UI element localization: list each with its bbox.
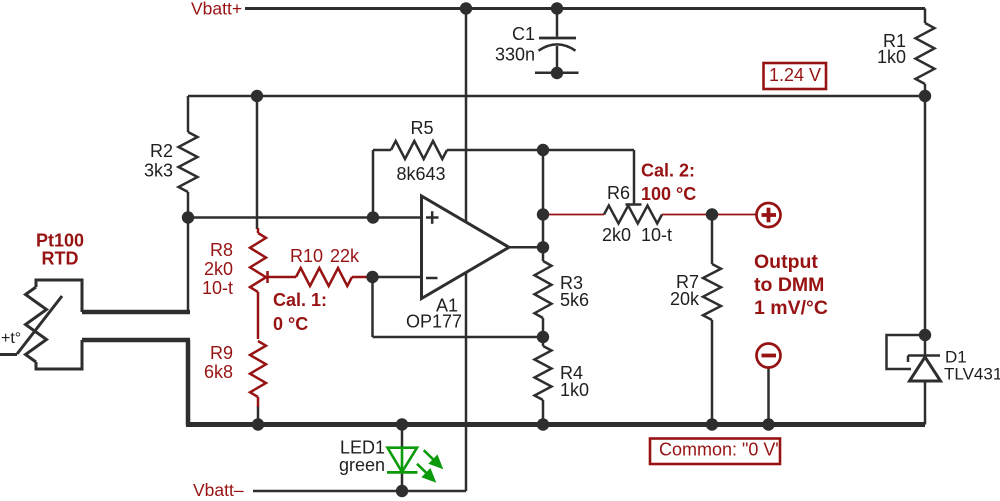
wire Vbatt- rail [253,490,466,493]
svg-text:330n: 330n [495,45,535,65]
svg-text:R8: R8 [210,240,233,260]
svg-text:+t°: +t° [1,330,21,347]
svg-text:6k8: 6k8 [204,362,233,382]
svg-text:R5: R5 [410,118,433,138]
svg-text:0 °C: 0 °C [273,314,308,334]
svg-text:RTD: RTD [42,249,79,269]
capacitor C1 [535,9,579,74]
svg-text:20k: 20k [670,289,700,309]
svg-text:Cal. 2:: Cal. 2: [641,161,695,181]
resistor R1 [916,9,935,97]
wire minus terminal lead [767,368,770,425]
svg-text:8k643: 8k643 [396,164,445,184]
svg-text:Cal. 1:: Cal. 1: [273,290,327,310]
resistor R9 [250,341,266,407]
thermistor Pt100 RTD body [26,280,83,369]
resistor R4 [535,346,552,400]
svg-text:OP177: OP177 [406,312,462,332]
wire R8 top black segment [256,96,259,229]
label box Common 0V [650,439,780,465]
resistor R6 pot body [604,206,662,224]
wire D1 ref bracket [887,335,926,369]
resistor R2 [179,96,198,218]
wire node A vertical [187,218,190,313]
potentiometer R8 [250,228,266,339]
svg-text:3k3: 3k3 [144,161,173,181]
wire RTD bottom lead [82,338,190,343]
wire RTD top lead [82,310,190,315]
svg-text:22k: 22k [330,246,360,266]
svg-text:100 °C: 100 °C [641,184,696,204]
svg-text:2k0 10-t: 2k0 10-t [602,225,672,245]
svg-text:5k6: 5k6 [560,290,589,310]
op-amp plus input glyph [426,211,439,224]
LED1 arrows [417,450,441,480]
op-amp U1 power stub top [465,9,468,222]
wire R9 bottom black segment [257,406,260,425]
wire R3-R4 junction [542,318,545,346]
svg-text:1k0: 1k0 [877,47,906,67]
svg-text:1 mV/°C: 1 mV/°C [754,297,828,319]
R8 wiper [268,271,297,283]
wire output lead [509,246,543,249]
svg-text:R9: R9 [210,343,233,363]
wire 1.24V bus [188,95,925,98]
op-amp U1 power stub bottom [465,273,468,491]
wire Vbatt+ top rail [245,7,925,10]
resistor R7 [703,215,721,425]
wire R6 right red [662,214,757,216]
svg-text:Pt100: Pt100 [36,231,84,251]
diode D1 TLV431 [908,96,941,425]
wire inverting input lead [373,276,422,279]
wire noninverting input line [188,216,422,219]
svg-text:1k0: 1k0 [560,380,589,400]
wire RTD down to 0V [186,340,191,425]
resistor R10 [296,268,370,286]
wire output node vertical [542,150,545,261]
svg-text:Vbatt–: Vbatt– [193,480,244,500]
svg-text:Output: Output [754,251,818,273]
plus output terminal [757,203,781,227]
resistor R3 [535,261,552,318]
svg-text:green: green [339,455,385,475]
RTD +t arrow [0,296,62,355]
svg-text:R6: R6 [607,183,630,203]
svg-text:R2: R2 [150,141,173,161]
svg-text:TLV431: TLV431 [944,365,1000,384]
svg-text:Common: "0 V": Common: "0 V" [659,440,782,460]
svg-text:10-t: 10-t [202,278,233,298]
svg-text:C1: C1 [512,24,535,44]
minus output terminal [757,344,781,368]
op-amp A1 triangle [422,196,510,299]
LED1 [387,425,418,492]
op-amp minus input glyph [426,277,438,280]
resistor R5 [373,141,543,218]
wire R6 wiper feed [543,150,642,205]
svg-text:1.24 V: 1.24 V [769,65,821,85]
wire R6 left red [543,214,604,216]
label box 1.24 V [764,63,827,89]
junction dots [460,2,472,14]
svg-text:Vbatt+: Vbatt+ [191,0,242,19]
svg-text:to DMM: to DMM [754,274,824,296]
svg-text:R10: R10 [290,246,323,266]
wire R4 bottom [542,400,545,425]
svg-text:2k0: 2k0 [204,259,233,279]
wire feedback loop down [371,277,374,337]
wire 0V bottom bus [186,422,925,427]
wire feedback loop horizontal [373,336,544,339]
